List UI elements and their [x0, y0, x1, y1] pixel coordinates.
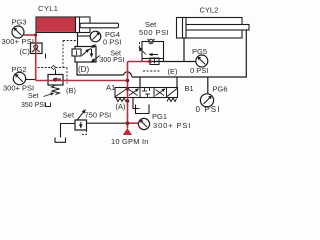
- svg-text:0 PSI: 0 PSI: [196, 105, 221, 114]
- tank line below directional valve: [133, 98, 140, 109]
- red line branch to PG1: [128, 122, 139, 124]
- counterbalance valve (E) bypass loop: [142, 42, 164, 59]
- gauge PG4: [90, 31, 101, 42]
- wire PG4 stem: [78, 35, 91, 37]
- gauge PG3: [12, 26, 24, 38]
- svg-text:0 PSI: 0 PSI: [190, 66, 208, 75]
- svg-text:PG2: PG2: [12, 65, 27, 74]
- pump inlet triangle: [123, 128, 132, 135]
- svg-text:PG6: PG6: [213, 84, 228, 93]
- svg-text:A1: A1: [106, 83, 115, 92]
- cylinder CYL1 body: [36, 17, 90, 33]
- relief valve 750 adjustment arrow: [76, 111, 85, 122]
- relief valve (B) spring: [52, 85, 60, 95]
- wire relief 750 to tank: [61, 124, 76, 138]
- svg-text:PG5: PG5: [192, 47, 207, 56]
- svg-text:(B): (B): [66, 86, 77, 95]
- directional valve position 3 arrows: [156, 90, 165, 96]
- relief valve (B) body: [48, 75, 63, 86]
- valve (D) body: [75, 47, 96, 63]
- directional valve left spring: [116, 98, 126, 102]
- relief valve 750 body: [75, 120, 87, 130]
- red line cap-side down through check valve C: [35, 33, 37, 81]
- svg-text:750 PSI: 750 PSI: [85, 111, 112, 120]
- wire crossover hop over red line: [124, 72, 133, 77]
- wire relief 750 to pump line: [87, 122, 128, 124]
- svg-text:PG1: PG1: [152, 112, 167, 121]
- cylinder CYL2 piston: [183, 18, 187, 39]
- directional valve position 1 arrows: [129, 90, 138, 96]
- red line horizontal to pump riser: [36, 80, 128, 82]
- gauge PG1: [138, 118, 149, 129]
- tank symbol (valve): [136, 105, 150, 114]
- wire loop stubs: [141, 59, 143, 62]
- relief valve 750 pilot dash: [81, 131, 87, 135]
- check valve (C) box: [31, 43, 43, 54]
- directional valve right solenoid: [167, 89, 177, 97]
- gauge PG6: [200, 94, 213, 107]
- counterbalance valve (E) pilot dashes: [140, 42, 161, 71]
- gauge PG5: [196, 55, 208, 67]
- pilot stub to (B): [55, 70, 57, 75]
- valve (D) left compensator box: [72, 49, 81, 56]
- counterbalance valve (E) check valve: [148, 39, 155, 44]
- counterbalance valve (E) lower box: [150, 58, 159, 65]
- directional valve left solenoid: [116, 89, 128, 97]
- svg-text:Set: Set: [28, 93, 39, 100]
- pilot stub below check (C): [45, 54, 47, 59]
- wire CYL2 cap port riser: [183, 38, 185, 62]
- wire PG6 stub: [207, 77, 209, 94]
- svg-text:0 PSI: 0 PSI: [103, 37, 121, 46]
- svg-text:350 PSI: 350 PSI: [21, 102, 46, 109]
- directional valve right spring: [167, 98, 177, 102]
- tank symbol (750 relief): [55, 138, 66, 143]
- cylinder CYL1 rod: [80, 23, 119, 28]
- valve (D) top-right arrow: [89, 46, 95, 51]
- junction dots: [34, 34, 152, 126]
- gauge PG2: [13, 72, 25, 84]
- relief valve (B) adjustment arrow: [44, 94, 53, 97]
- counterbalance valve (E) adjustment arrow: [140, 49, 146, 55]
- pilot diamond junction: [51, 66, 55, 70]
- red line PG3 stem: [24, 34, 36, 36]
- wire tee to port B1: [176, 77, 178, 88]
- svg-text:10 GPM In: 10 GPM In: [111, 137, 149, 146]
- cylinder CYL1 piston: [76, 17, 80, 33]
- svg-text:B1: B1: [185, 84, 194, 93]
- red line branch to valve E: [128, 61, 151, 63]
- wire valve E outlet to PG5: [152, 61, 196, 63]
- tank symbol (350 PSI): [46, 103, 51, 107]
- svg-text:(C): (C): [20, 47, 31, 56]
- svg-text:300+ PSI: 300+ PSI: [2, 37, 35, 46]
- cylinder CYL2 rod: [186, 25, 249, 31]
- svg-text:CYL1: CYL1: [38, 4, 58, 13]
- wire CYL1 rod port down: [77, 33, 79, 48]
- svg-text:Set: Set: [63, 111, 75, 120]
- wire valve D outlet to directional valve: [77, 62, 124, 75]
- svg-text:500 PSI: 500 PSI: [139, 28, 169, 37]
- valve (D) adjustment arrow: [93, 56, 101, 62]
- counterbalance valve (E) inner arrow: [151, 54, 159, 56]
- wire PG2 stem: [26, 79, 36, 81]
- svg-text:300 PSI: 300 PSI: [100, 57, 125, 64]
- wire rod-side line to CYL2: [132, 30, 246, 77]
- svg-text:CYL2: CYL2: [200, 5, 219, 14]
- svg-text:300+ PSI: 300+ PSI: [153, 121, 191, 130]
- svg-text:PG3: PG3: [12, 18, 27, 27]
- cylinder CYL2 body: [177, 18, 243, 39]
- svg-text:(A): (A): [116, 102, 127, 111]
- directional valve body: [115, 88, 178, 98]
- wire tee to valve center: [139, 77, 141, 88]
- directional valve center closed ports: [142, 88, 150, 97]
- svg-text:(D): (D): [78, 65, 89, 74]
- svg-text:300+ PSI: 300+ PSI: [3, 84, 34, 93]
- red line pump riser: [127, 62, 129, 129]
- valve (D) pilot dashed lines: [38, 41, 78, 84]
- svg-text:(E): (E): [168, 67, 179, 76]
